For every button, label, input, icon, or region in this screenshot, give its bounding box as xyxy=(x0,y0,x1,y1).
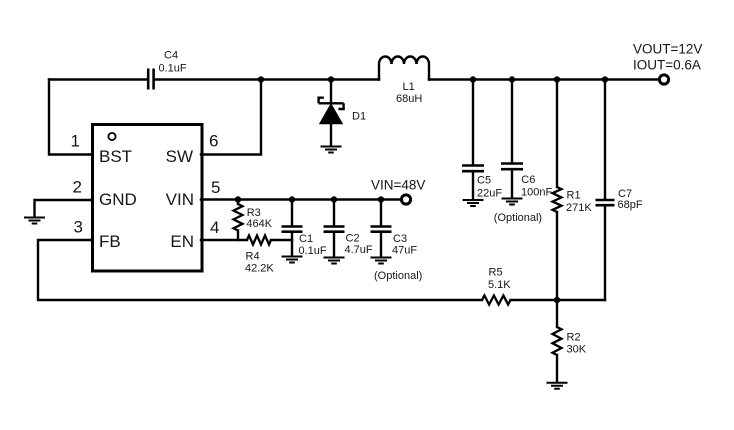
svg-text:VIN=48V: VIN=48V xyxy=(371,178,425,193)
svg-text:5: 5 xyxy=(211,178,220,197)
svg-text:4: 4 xyxy=(210,218,219,237)
svg-text:GND: GND xyxy=(99,190,137,209)
svg-text:BST: BST xyxy=(99,147,132,166)
svg-text:EN: EN xyxy=(170,232,194,251)
svg-text:42.2K: 42.2K xyxy=(245,263,274,275)
svg-text:R2: R2 xyxy=(567,332,581,344)
svg-text:0.1uF: 0.1uF xyxy=(299,245,327,257)
svg-text:47uF: 47uF xyxy=(392,245,417,257)
svg-text:271K: 271K xyxy=(566,202,592,214)
svg-text:100nF: 100nF xyxy=(521,187,552,199)
svg-text:(Optional): (Optional) xyxy=(374,270,422,282)
svg-text:L1: L1 xyxy=(403,81,415,93)
svg-text:D1: D1 xyxy=(352,111,366,123)
svg-text:464K: 464K xyxy=(246,218,272,230)
svg-text:C5: C5 xyxy=(477,175,491,187)
svg-text:1: 1 xyxy=(71,132,80,151)
svg-text:68pF: 68pF xyxy=(618,199,643,211)
svg-text:R1: R1 xyxy=(567,190,581,202)
svg-text:R5: R5 xyxy=(489,267,503,279)
svg-text:VIN: VIN xyxy=(166,190,194,209)
svg-text:0.1uF: 0.1uF xyxy=(159,63,187,75)
svg-text:R4: R4 xyxy=(246,250,260,262)
svg-text:IOUT=0.6A: IOUT=0.6A xyxy=(633,58,701,73)
svg-text:4.7uF: 4.7uF xyxy=(345,244,373,256)
svg-text:C2: C2 xyxy=(346,232,360,244)
svg-text:22uF: 22uF xyxy=(477,188,502,200)
svg-text:5.1K: 5.1K xyxy=(488,279,511,291)
svg-text:C4: C4 xyxy=(164,50,178,62)
svg-text:C6: C6 xyxy=(521,174,535,186)
svg-text:68uH: 68uH xyxy=(396,93,422,105)
svg-text:C1: C1 xyxy=(299,233,313,245)
svg-text:2: 2 xyxy=(73,178,82,197)
svg-text:30K: 30K xyxy=(567,344,587,356)
svg-text:6: 6 xyxy=(209,132,218,151)
svg-text:SW: SW xyxy=(166,147,193,166)
svg-text:FB: FB xyxy=(99,232,121,251)
svg-text:(Optional): (Optional) xyxy=(494,212,542,224)
svg-text:VOUT=12V: VOUT=12V xyxy=(633,42,702,57)
svg-text:3: 3 xyxy=(74,218,83,237)
svg-text:C3: C3 xyxy=(393,233,407,245)
